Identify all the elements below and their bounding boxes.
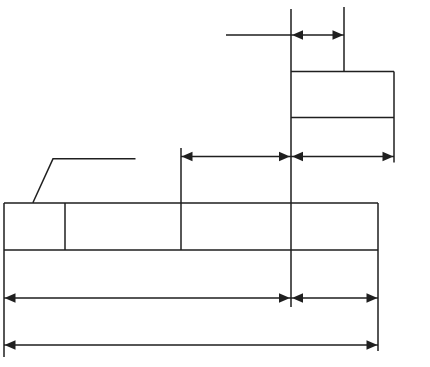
bar divider 1 <box>64 203 66 250</box>
extension line top-right of step notch (vertical at x=344) <box>343 7 345 72</box>
middle dim far-right arrowhead <box>383 152 394 162</box>
step rectangle bottom edge <box>291 117 394 119</box>
middle dim right-segment left arrowhead <box>292 152 303 162</box>
extension line top-left of step (vertical at x=291, runs top dim through bar to lower dim) <box>290 9 292 307</box>
top dimension line shaft <box>226 34 344 36</box>
lower dim left-segment right arrowhead <box>279 293 290 303</box>
middle dim far-left arrowhead <box>182 152 193 162</box>
lower dim right-segment left arrowhead <box>292 293 303 303</box>
lower dim far-left arrowhead <box>5 293 16 303</box>
middle dimension line shaft <box>181 156 394 158</box>
bottom dim left arrowhead <box>5 340 16 350</box>
bar bottom edge <box>4 249 378 251</box>
middle dim left-segment right arrowhead <box>279 152 290 162</box>
top dim left arrowhead <box>292 30 303 40</box>
step rectangle top edge <box>291 71 394 73</box>
bar top edge <box>4 202 378 204</box>
bar left edge with extension down to bottom dimension <box>3 203 5 357</box>
lower dim far-right arrowhead <box>367 293 378 303</box>
top dim right arrowhead <box>333 30 344 40</box>
bar right edge with extension down to bottom dimension <box>377 203 379 351</box>
leader line to first bar cell <box>33 159 136 203</box>
bottom overall dimension line shaft <box>4 344 378 346</box>
extension line above bar divider (vertical at x=181) <box>180 148 182 250</box>
lower dimension line shaft <box>4 297 378 299</box>
step rectangle right edge with extension down <box>393 72 395 163</box>
bottom dim right arrowhead <box>367 340 378 350</box>
